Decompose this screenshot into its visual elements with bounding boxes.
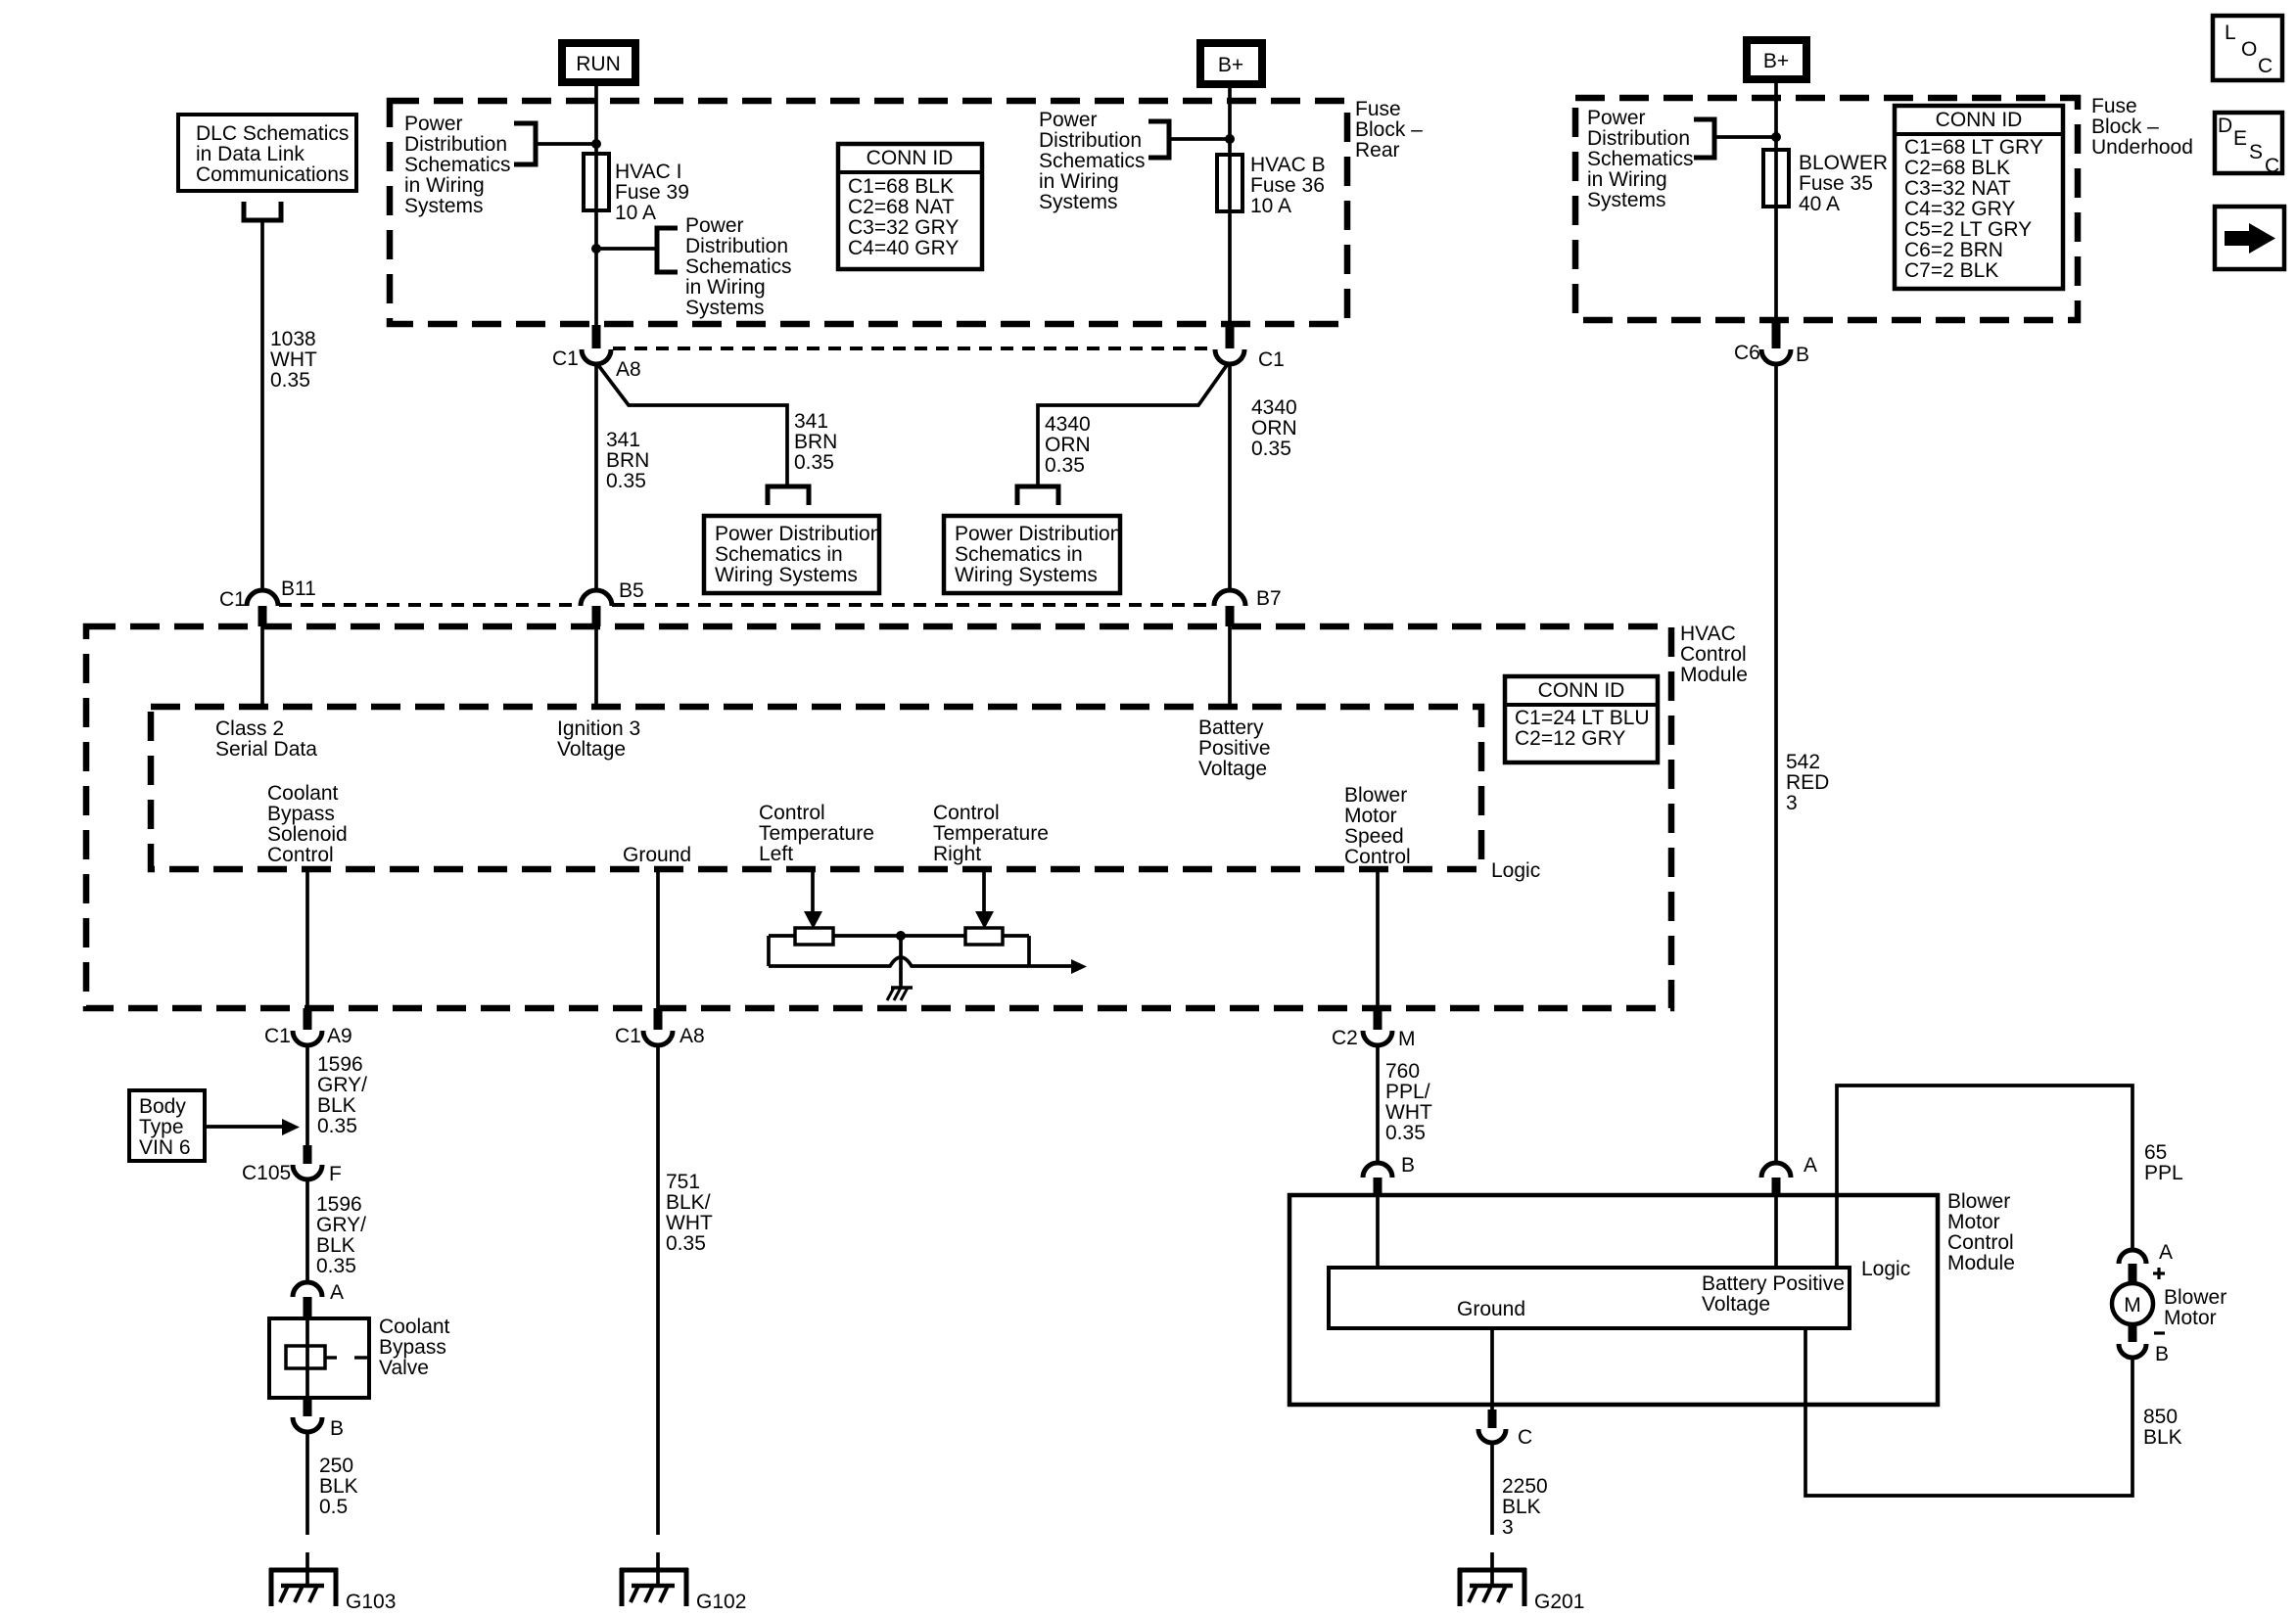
connector B (blower motor control module) xyxy=(1363,1154,1415,1196)
svg-text:0.35: 0.35 xyxy=(606,470,646,492)
svg-text:CONN ID: CONN ID xyxy=(867,147,954,169)
svg-text:C1=68 BLK: C1=68 BLK xyxy=(848,175,954,198)
svg-text:0.35: 0.35 xyxy=(317,1115,357,1137)
svg-text:Body: Body xyxy=(139,1095,186,1118)
pin label Control Temperature Right xyxy=(933,802,1049,865)
svg-text:Motor: Motor xyxy=(1947,1211,2000,1233)
wiper arrow Control Temperature Left xyxy=(804,869,822,929)
svg-text:DLC Schematics: DLC Schematics xyxy=(196,122,349,145)
svg-text:Power Distribution: Power Distribution xyxy=(715,523,881,545)
svg-text:Schematics: Schematics xyxy=(1039,150,1146,172)
svg-text:0.35: 0.35 xyxy=(1385,1122,1426,1144)
svg-text:A: A xyxy=(1804,1154,1817,1177)
pin label Blower Motor Speed Control xyxy=(1344,784,1411,868)
svg-text:CONN ID: CONN ID xyxy=(1538,679,1625,702)
svg-text:C2=68 BLK: C2=68 BLK xyxy=(1904,157,2010,179)
fuse block rear dashed boundary xyxy=(390,101,1347,324)
svg-text:Left: Left xyxy=(759,843,793,865)
svg-text:BLK: BLK xyxy=(1502,1496,1541,1518)
svg-text:C7=2 BLK: C7=2 BLK xyxy=(1904,259,1998,282)
wire ground (blower motor control module) xyxy=(1490,1328,1494,1409)
svg-text:850: 850 xyxy=(2143,1406,2178,1428)
label 4340 ORN 0.35 (branch) xyxy=(1045,413,1091,477)
svg-text:C2=68 NAT: C2=68 NAT xyxy=(848,196,955,218)
svg-text:Fuse: Fuse xyxy=(2091,95,2137,117)
svg-text:C4=32 GRY: C4=32 GRY xyxy=(1904,198,2015,220)
connector line C1 (dashed, HVAC control module) xyxy=(279,603,1214,607)
svg-text:3: 3 xyxy=(1786,792,1798,814)
component Body Type VIN 6 tag xyxy=(129,1090,205,1161)
note Power Distribution Schematics in Wiring Systems (below fuse 39) xyxy=(685,214,792,319)
wire 751 BLK/WHT to ground G102 xyxy=(656,1045,660,1586)
svg-text:F: F xyxy=(329,1163,342,1185)
svg-text:0.5: 0.5 xyxy=(319,1496,348,1518)
connector C2-M xyxy=(1332,1008,1416,1050)
bracket to Power Distribution Schematics note (left) xyxy=(514,123,536,164)
svg-text:Type: Type xyxy=(139,1116,184,1138)
wire ground (in module) xyxy=(656,869,660,1008)
svg-text:VIN 6: VIN 6 xyxy=(139,1136,191,1159)
svg-text:Motor: Motor xyxy=(2164,1307,2217,1329)
svg-text:C1: C1 xyxy=(615,1025,641,1047)
svg-text:A: A xyxy=(330,1281,344,1304)
svg-text:Underhood: Underhood xyxy=(2091,136,2193,159)
svg-text:Blower: Blower xyxy=(1344,784,1407,807)
connector B7 (HVAC control module) xyxy=(1214,587,1282,626)
wire branch 4340 ORN to power distribution note xyxy=(1038,365,1227,485)
svg-text:Wiring Systems: Wiring Systems xyxy=(715,564,858,586)
svg-text:250: 250 xyxy=(319,1455,353,1477)
off-page staple (DLC) xyxy=(244,202,281,220)
connector C105-F xyxy=(242,1145,342,1185)
svg-text:3: 3 xyxy=(1502,1516,1514,1539)
svg-text:BLK: BLK xyxy=(316,1234,355,1257)
svg-text:A9: A9 xyxy=(327,1025,352,1047)
reference box DESC xyxy=(2215,113,2282,177)
off-page staple (341 BRN) xyxy=(768,486,809,505)
svg-text:Systems: Systems xyxy=(685,297,765,319)
svg-text:B+: B+ xyxy=(1218,54,1243,76)
pin label Ignition 3 Voltage xyxy=(557,717,640,761)
svg-text:Ground: Ground xyxy=(1457,1298,1525,1320)
svg-text:0.35: 0.35 xyxy=(666,1232,706,1255)
svg-text:O: O xyxy=(2241,38,2257,61)
fuse HVAC I Fuse 39 10 A xyxy=(584,154,689,224)
junction node on B+ feed xyxy=(1225,134,1235,144)
svg-text:65: 65 xyxy=(2144,1141,2167,1164)
ground G102 xyxy=(620,1568,746,1613)
svg-text:Bypass: Bypass xyxy=(379,1336,446,1359)
potentiometer element right (temp right) xyxy=(965,928,1003,945)
svg-text:Logic: Logic xyxy=(1491,859,1540,882)
svg-text:WHT: WHT xyxy=(666,1212,713,1234)
label 542 RED 3 xyxy=(1786,751,1829,814)
svg-text:B+: B+ xyxy=(1763,50,1789,72)
svg-text:C: C xyxy=(2258,55,2273,77)
wire junction to bracket (power distribution tap 3) xyxy=(1170,137,1230,141)
svg-text:Voltage: Voltage xyxy=(1198,758,1267,780)
svg-text:C1: C1 xyxy=(1258,348,1285,371)
svg-text:BLK: BLK xyxy=(2143,1426,2182,1449)
svg-text:GRY/: GRY/ xyxy=(317,1074,367,1096)
svg-text:Fuse: Fuse xyxy=(1355,98,1401,120)
connector A (blower motor control module) xyxy=(1761,1154,1817,1196)
svg-text:CONN ID: CONN ID xyxy=(1936,109,2023,131)
svg-text:RUN: RUN xyxy=(576,53,621,75)
wire branch 341 BRN to power distribution note xyxy=(598,365,787,485)
component DLC Schematics in Data Link Communications xyxy=(178,115,356,191)
svg-text:Rear: Rear xyxy=(1355,139,1400,162)
svg-text:Blower: Blower xyxy=(1947,1190,2010,1213)
svg-text:B7: B7 xyxy=(1256,587,1282,610)
svg-text:2250: 2250 xyxy=(1502,1475,1548,1498)
connector B (blower motor) xyxy=(2119,1322,2169,1365)
label 4340 ORN 0.35 (battery wire) xyxy=(1251,396,1297,460)
svg-text:C1: C1 xyxy=(552,347,579,370)
svg-text:40 A: 40 A xyxy=(1799,193,1840,215)
label 1596 GRY/BLK 0.35 (upper) xyxy=(317,1053,367,1137)
power symbol B+ (fuse block rear) xyxy=(1200,43,1262,84)
svg-text:C1: C1 xyxy=(264,1025,291,1047)
wire center tap to internal ground xyxy=(899,936,903,988)
wire RUN to fuse HVAC I xyxy=(594,86,598,326)
wire 850 BLK blower motor return xyxy=(1805,1328,2132,1496)
connector line C1 (dashed, fuse block rear) xyxy=(613,346,1213,350)
svg-text:HVAC: HVAC xyxy=(1680,623,1736,645)
svg-text:0.35: 0.35 xyxy=(316,1255,356,1277)
connector C1 (battery feed, fuse block rear) xyxy=(1215,325,1285,371)
svg-text:Battery: Battery xyxy=(1198,716,1264,739)
connector A (coolant bypass valve) xyxy=(293,1281,344,1319)
svg-text:in Wiring: in Wiring xyxy=(1039,170,1119,193)
svg-text:BLK: BLK xyxy=(317,1094,356,1117)
svg-text:in Wiring: in Wiring xyxy=(1587,168,1667,191)
svg-text:Coolant: Coolant xyxy=(379,1316,450,1338)
wire coolant bypass solenoid control (in module) xyxy=(305,869,309,1008)
svg-text:Control: Control xyxy=(1344,846,1411,868)
svg-text:Fuse 39: Fuse 39 xyxy=(615,181,689,204)
svg-text:C6=2 BRN: C6=2 BRN xyxy=(1904,239,2003,261)
svg-text:Schematics in: Schematics in xyxy=(955,543,1083,566)
svg-text:Module: Module xyxy=(1947,1252,2015,1274)
note box Power Distribution Schematics in Wiring Systems (341 BRN) xyxy=(704,516,881,593)
wire 65 PPL logic to blower motor xyxy=(1837,1086,2132,1268)
note Power Distribution Schematics in Wiring Systems (RUN) xyxy=(404,113,511,217)
svg-text:Logic: Logic xyxy=(1861,1258,1910,1280)
label 65 PPL xyxy=(2144,1141,2183,1184)
svg-text:G102: G102 xyxy=(696,1591,746,1613)
svg-text:Fuse 36: Fuse 36 xyxy=(1250,174,1325,197)
svg-text:Right: Right xyxy=(933,843,981,865)
svg-text:Power: Power xyxy=(685,214,744,237)
svg-text:C4=40 GRY: C4=40 GRY xyxy=(848,237,959,259)
wire 1596 GRY/BLK upper xyxy=(305,1045,309,1145)
svg-text:Control: Control xyxy=(1680,643,1747,666)
label Fuse Block - Underhood xyxy=(2091,95,2193,159)
svg-text:Distribution: Distribution xyxy=(404,133,507,156)
svg-text:Class 2: Class 2 xyxy=(215,717,284,740)
svg-text:Blower: Blower xyxy=(2164,1286,2226,1309)
svg-text:Schematics in: Schematics in xyxy=(715,543,843,566)
svg-text:Distribution: Distribution xyxy=(1039,129,1142,152)
svg-text:Temperature: Temperature xyxy=(933,822,1049,845)
svg-text:1038: 1038 xyxy=(270,328,316,350)
svg-text:341: 341 xyxy=(794,410,828,433)
svg-text:Module: Module xyxy=(1680,664,1748,686)
svg-text:Ground: Ground xyxy=(623,844,691,866)
wire B5 into module xyxy=(594,626,598,707)
svg-text:B11: B11 xyxy=(281,577,316,600)
svg-text:Serial Data: Serial Data xyxy=(215,738,317,761)
svg-text:BRN: BRN xyxy=(794,431,837,453)
svg-text:542: 542 xyxy=(1786,751,1820,773)
potentiometer network wiring xyxy=(769,936,1071,966)
connector C1-A8 (ground) xyxy=(615,1008,705,1047)
component Coolant Bypass Valve xyxy=(269,1316,450,1398)
svg-text:A8: A8 xyxy=(616,358,641,381)
svg-text:BRN: BRN xyxy=(606,449,649,472)
svg-text:Communications: Communications xyxy=(196,163,349,186)
wire A into control logic xyxy=(1774,1195,1778,1268)
label 850 BLK xyxy=(2143,1406,2182,1449)
wire B+ underhood to fuse BLOWER xyxy=(1774,83,1778,323)
svg-text:in Wiring: in Wiring xyxy=(404,174,485,197)
svg-text:Power: Power xyxy=(404,113,463,135)
svg-text:Schematics: Schematics xyxy=(685,255,792,278)
wire 250 BLK to ground G103 xyxy=(305,1431,309,1586)
svg-text:A8: A8 xyxy=(679,1025,705,1047)
label 751 BLK/WHT 0.35 xyxy=(666,1171,713,1255)
wire 760 PPL/WHT xyxy=(1376,1045,1380,1165)
pin label Class 2 Serial Data xyxy=(215,717,317,761)
wire 1596 GRY/BLK lower xyxy=(305,1179,309,1283)
ground G103 xyxy=(269,1568,396,1613)
svg-text:1596: 1596 xyxy=(317,1053,363,1076)
svg-text:1596: 1596 xyxy=(316,1193,362,1216)
fuse block underhood dashed boundary xyxy=(1575,98,2078,320)
svg-text:B: B xyxy=(1796,344,1809,366)
svg-text:0.35: 0.35 xyxy=(1045,454,1085,477)
svg-text:10 A: 10 A xyxy=(615,202,656,224)
label Fuse Block - Rear xyxy=(1355,98,1423,162)
connector table CONN ID (fuse block rear) xyxy=(838,144,982,269)
svg-text:HVAC B: HVAC B xyxy=(1250,154,1326,176)
wire B11 into module xyxy=(260,626,264,707)
label 760 PPL/WHT 0.35 xyxy=(1385,1060,1432,1144)
svg-text:Control: Control xyxy=(1947,1231,2014,1254)
svg-text:Temperature: Temperature xyxy=(759,822,874,845)
wire 4340 ORN connector C1 to B7 xyxy=(1228,364,1232,591)
svg-text:B: B xyxy=(2155,1343,2169,1365)
wire blower motor speed control (in module) xyxy=(1376,869,1380,1008)
svg-text:HVAC I: HVAC I xyxy=(615,161,681,183)
svg-text:751: 751 xyxy=(666,1171,700,1193)
svg-text:C105: C105 xyxy=(242,1162,291,1184)
svg-text:Schematics: Schematics xyxy=(404,154,511,176)
svg-text:Block –: Block – xyxy=(2091,115,2159,138)
pin label Battery Positive Voltage xyxy=(1198,716,1271,780)
label 1596 GRY/BLK 0.35 (lower) xyxy=(316,1193,366,1277)
wire B7 into module xyxy=(1228,626,1232,707)
fuse BLOWER Fuse 35 40 A xyxy=(1763,150,1888,215)
svg-text:C1: C1 xyxy=(219,588,246,611)
power symbol B+ (fuse block underhood) xyxy=(1747,40,1806,79)
svg-text:Control: Control xyxy=(267,844,334,866)
svg-text:Voltage: Voltage xyxy=(557,738,626,761)
bracket to Power Distribution Schematics note (underhood) xyxy=(1694,119,1714,158)
svg-text:10 A: 10 A xyxy=(1250,195,1291,217)
svg-text:Schematics: Schematics xyxy=(1587,148,1694,170)
note box Power Distribution Schematics in Wiring Systems (4340 ORN) xyxy=(944,516,1121,593)
svg-text:Positive: Positive xyxy=(1198,737,1271,760)
arrow Body Type VIN 6 to wire xyxy=(205,1119,300,1135)
svg-text:Systems: Systems xyxy=(404,195,484,217)
wire 2250 BLK to ground G201 xyxy=(1490,1443,1494,1586)
connector B5 (HVAC control module) xyxy=(581,579,644,626)
connector C1-A9 xyxy=(264,1008,352,1047)
svg-text:Coolant: Coolant xyxy=(267,782,339,805)
junction node on B+ underhood feed xyxy=(1771,132,1781,142)
wire 542 RED to blower motor control module xyxy=(1774,364,1778,1165)
connector C6-B (underhood) xyxy=(1734,323,1809,366)
internal ground symbol (logic) xyxy=(887,988,913,1000)
bracket to Power Distribution Schematics note (below fuse 39) xyxy=(657,228,678,272)
svg-text:Speed: Speed xyxy=(1344,825,1404,848)
junction node on RUN feed xyxy=(591,139,601,149)
svg-text:BLK: BLK xyxy=(319,1475,358,1498)
svg-text:GRY/: GRY/ xyxy=(316,1214,366,1236)
svg-text:ORN: ORN xyxy=(1045,434,1091,456)
svg-text:Valve: Valve xyxy=(379,1357,429,1379)
fuse HVAC B Fuse 36 10 A xyxy=(1217,154,1326,217)
svg-text:B: B xyxy=(1401,1154,1415,1177)
svg-text:Distribution: Distribution xyxy=(1587,127,1690,150)
svg-text:B: B xyxy=(330,1417,344,1440)
svg-text:0.35: 0.35 xyxy=(1251,438,1291,460)
wire B+ to fuse HVAC B xyxy=(1228,88,1232,326)
svg-text:C2: C2 xyxy=(1332,1027,1358,1049)
svg-text:Motor: Motor xyxy=(1344,805,1397,827)
svg-text:C6: C6 xyxy=(1734,342,1760,364)
svg-text:4340: 4340 xyxy=(1045,413,1091,436)
svg-text:Systems: Systems xyxy=(1039,191,1118,213)
connector C1-A8 (ignition feed) xyxy=(552,325,641,381)
connector B (coolant bypass valve) xyxy=(293,1398,344,1440)
wire junction to bracket (power distribution tap 4) xyxy=(1715,135,1776,139)
svg-text:PPL/: PPL/ xyxy=(1385,1081,1430,1103)
label HVAC Control Module xyxy=(1680,623,1748,686)
wire 1038 WHT (class 2 serial data) xyxy=(260,220,264,591)
wiper arrow Control Temperature Right xyxy=(975,869,994,929)
connector A (blower motor) xyxy=(2119,1241,2173,1284)
svg-text:M: M xyxy=(2124,1294,2141,1317)
wire 341 BRN connector C1-A8 to B5 xyxy=(594,364,598,591)
wire B into control logic xyxy=(1376,1195,1380,1268)
svg-text:341: 341 xyxy=(606,429,640,451)
logic block (blower motor control module) xyxy=(1329,1268,1850,1328)
svg-text:Wiring Systems: Wiring Systems xyxy=(955,564,1098,586)
svg-text:C3=32 GRY: C3=32 GRY xyxy=(848,216,959,239)
svg-text:C1=68 LT GRY: C1=68 LT GRY xyxy=(1904,136,2043,159)
connector C1-B11 (HVAC control module) xyxy=(219,577,316,626)
svg-text:WHT: WHT xyxy=(1385,1101,1432,1124)
note Power Distribution Schematics in Wiring Systems (B+ rear) xyxy=(1039,109,1146,213)
pin label Coolant Bypass Solenoid Control xyxy=(267,782,348,866)
svg-text:C5=2 LT GRY: C5=2 LT GRY xyxy=(1904,218,2032,241)
svg-text:Battery Positive: Battery Positive xyxy=(1702,1272,1845,1295)
signal arrow to logic xyxy=(1071,959,1087,974)
svg-text:Fuse 35: Fuse 35 xyxy=(1799,172,1873,195)
junction node below fuse 39 xyxy=(591,244,601,254)
svg-text:Systems: Systems xyxy=(1587,189,1666,211)
reference box LOC xyxy=(2213,16,2282,80)
svg-text:C: C xyxy=(1518,1426,1532,1449)
connector C (blower motor control module) xyxy=(1478,1409,1532,1449)
svg-text:M: M xyxy=(1398,1028,1416,1050)
svg-text:D: D xyxy=(2218,115,2232,137)
svg-text:BLOWER: BLOWER xyxy=(1799,152,1888,174)
svg-text:0.35: 0.35 xyxy=(794,451,834,474)
svg-text:Control: Control xyxy=(759,802,825,824)
svg-text:C: C xyxy=(2265,155,2279,177)
label 341 BRN 0.35 (branch) xyxy=(794,410,837,474)
label 250 BLK 0.5 xyxy=(319,1455,358,1518)
label 341 BRN 0.35 (ignition wire) xyxy=(606,429,649,492)
label 2250 BLK 3 xyxy=(1502,1475,1548,1539)
svg-text:Solenoid: Solenoid xyxy=(267,823,348,846)
wire junction to bracket (power distribution tap 2) xyxy=(596,247,657,251)
svg-text:S: S xyxy=(2249,141,2263,163)
svg-text:Voltage: Voltage xyxy=(1702,1293,1770,1316)
svg-text:Power Distribution: Power Distribution xyxy=(955,523,1121,545)
reference box arrow xyxy=(2215,207,2284,269)
svg-text:Distribution: Distribution xyxy=(685,235,788,257)
label Blower Motor Control Module xyxy=(1947,1190,2015,1274)
svg-text:PPL: PPL xyxy=(2144,1162,2183,1184)
svg-text:G201: G201 xyxy=(1534,1591,1584,1613)
svg-text:Ignition 3: Ignition 3 xyxy=(557,717,640,740)
HVAC control module dashed boundary xyxy=(86,626,1671,1008)
svg-text:Power: Power xyxy=(1587,107,1646,129)
svg-text:0.35: 0.35 xyxy=(270,369,310,392)
svg-text:C2=12 GRY: C2=12 GRY xyxy=(1515,727,1625,750)
blower motor control module box xyxy=(1289,1195,1938,1405)
svg-text:A: A xyxy=(2159,1241,2173,1264)
pin label Control Temperature Left xyxy=(759,802,874,865)
bracket to Power Distribution Schematics note (B+ rear) xyxy=(1148,121,1169,158)
label 1038 WHT 0.35 xyxy=(270,328,317,392)
svg-text:WHT: WHT xyxy=(270,348,317,371)
svg-text:C1=24 LT BLU: C1=24 LT BLU xyxy=(1515,707,1650,729)
junction node potentiometer center tap xyxy=(896,931,906,941)
connector table CONN ID (HVAC control module) xyxy=(1505,676,1658,762)
svg-text:B5: B5 xyxy=(619,579,644,602)
svg-text:RED: RED xyxy=(1786,771,1829,794)
svg-text:ORN: ORN xyxy=(1251,417,1297,439)
connector table CONN ID (fuse block underhood) xyxy=(1895,106,2063,289)
power symbol RUN xyxy=(562,43,635,82)
svg-text:Bypass: Bypass xyxy=(267,803,335,825)
svg-text:G103: G103 xyxy=(346,1591,396,1613)
svg-text:760: 760 xyxy=(1385,1060,1420,1083)
svg-text:C3=32 NAT: C3=32 NAT xyxy=(1904,177,2011,200)
svg-text:Block –: Block – xyxy=(1355,118,1423,141)
wire junction to bracket (power distribution tap) xyxy=(536,142,596,146)
svg-text:Control: Control xyxy=(933,802,1000,824)
svg-text:L: L xyxy=(2225,22,2236,44)
svg-text:4340: 4340 xyxy=(1251,396,1297,419)
note Power Distribution Schematics in Wiring Systems (underhood) xyxy=(1587,107,1694,211)
